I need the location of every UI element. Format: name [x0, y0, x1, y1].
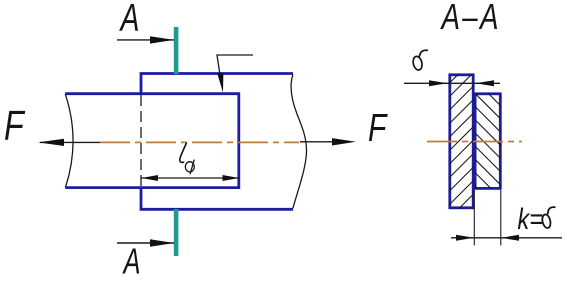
section right plate hatching	[381, 92, 567, 190]
hidden edge of plate B (dashed)	[140, 95, 142, 186]
plate A (front plate) outline	[65, 94, 239, 188]
plate B (back plate) outline	[141, 74, 293, 210]
dimension l_phi label phi	[185, 160, 194, 175]
view arrow A top	[117, 36, 174, 43]
section left plate (cut)	[450, 75, 473, 208]
centerline (left figure)	[100, 141, 299, 143]
force arrow F right	[300, 138, 356, 145]
dimension l_phi left arrowhead	[142, 175, 159, 181]
dimension delta line	[404, 82, 500, 84]
svg-text:A: A	[119, 0, 140, 40]
svg-text:A–A: A–A	[440, 0, 501, 37]
view arrow A bottom	[117, 239, 174, 246]
dimension l_phi right arrowhead	[223, 175, 240, 181]
svg-text:F: F	[368, 108, 388, 150]
dimension k line	[451, 237, 562, 239]
weld leader arrowhead	[217, 73, 223, 93]
plate B break line (wavy right edge)	[291, 75, 306, 209]
svg-text:A: A	[122, 241, 141, 281]
dimension delta label	[412, 50, 428, 71]
svg-text:k=: k=	[518, 202, 543, 235]
section left plate hatching	[324, 73, 567, 209]
dimension k right arrowhead	[501, 235, 519, 241]
dimension l_phi line	[142, 177, 240, 179]
centerline (section)	[427, 141, 522, 143]
svg-text:F: F	[4, 101, 26, 148]
dimension k left arrowhead	[456, 235, 474, 241]
cutting plane mark top	[174, 27, 179, 74]
dimension delta left arrowhead	[429, 80, 448, 86]
section right plate (cut)	[475, 94, 500, 189]
dimension delta right arrowhead	[476, 80, 495, 86]
plate A break line (wavy left edge)	[65, 94, 73, 188]
dimension k extension lines	[473, 190, 475, 246]
cutting plane mark bottom	[174, 209, 179, 256]
dimension l_phi label l	[180, 143, 187, 163]
force arrow F left	[38, 139, 100, 146]
weld leader line	[217, 55, 253, 85]
